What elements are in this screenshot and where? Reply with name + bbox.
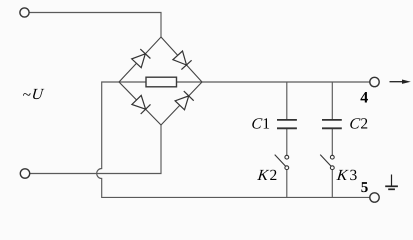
svg-text:5: 5 bbox=[361, 180, 369, 196]
svg-text:2: 2 bbox=[270, 167, 278, 184]
svg-text:~: ~ bbox=[23, 86, 31, 103]
svg-text:2: 2 bbox=[360, 116, 368, 133]
svg-text:4: 4 bbox=[360, 90, 368, 107]
svg-text:3: 3 bbox=[350, 167, 358, 184]
svg-text:1: 1 bbox=[262, 115, 270, 132]
